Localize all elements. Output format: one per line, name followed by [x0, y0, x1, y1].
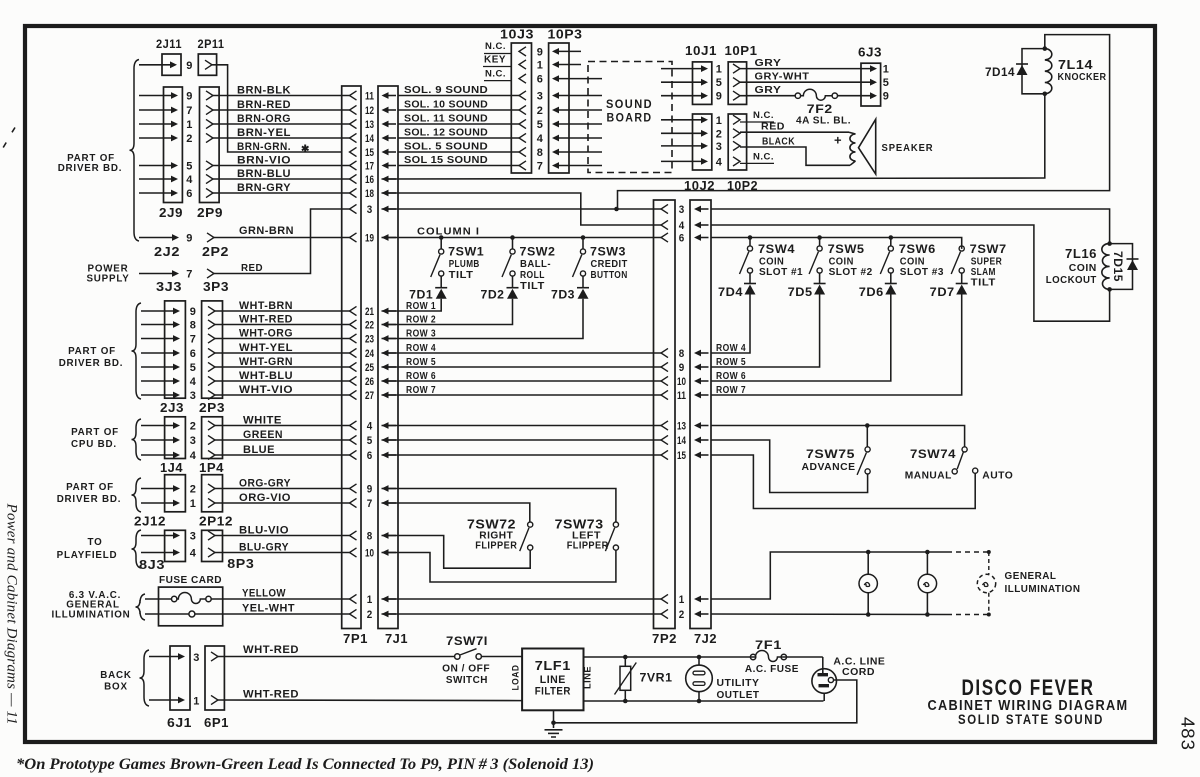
ac line cord plug drop	[822, 657, 824, 674]
svg-text:7F1: 7F1	[755, 640, 782, 652]
arrow 10P3 row 6	[552, 75, 559, 82]
wire knocker top loop	[618, 35, 1110, 209]
strip 7P1 pin 18 contact	[350, 188, 357, 197]
contact in 8P3 row 3	[208, 531, 215, 540]
wire 7D3 to row	[382, 299, 584, 339]
svg-text:1: 1	[190, 498, 197, 510]
strip 7P1 pin 1 contact	[350, 594, 357, 603]
strip 7P2 pin 15 contact	[661, 450, 668, 459]
strip 7P1 pin 17 contact	[350, 161, 357, 170]
contact in 2P12 row 2	[208, 484, 215, 493]
svg-text:1P4: 1P4	[199, 461, 224, 475]
svg-text:1: 1	[679, 594, 685, 606]
svg-text:3P3: 3P3	[203, 280, 229, 294]
contact 6P1 pin 3	[211, 652, 218, 661]
contact in 2P9 row 9	[206, 91, 213, 100]
contact in 2P9 row 6	[206, 188, 213, 197]
contact in 2P3 row 7	[208, 334, 215, 343]
junction dot ground	[551, 721, 556, 726]
contact in 2P9 row 5	[206, 161, 213, 170]
speaker cone	[859, 119, 876, 174]
arrow into 2J9 pin 6	[171, 190, 178, 197]
svg-text:2P12: 2P12	[199, 515, 233, 529]
arrow into 6J3 pin 5	[870, 79, 877, 86]
svg-text:A.C. FUSE: A.C. FUSE	[745, 663, 799, 675]
svg-text:BRN-GRN.: BRN-GRN.	[237, 141, 291, 153]
svg-text:10: 10	[365, 548, 374, 560]
svg-text:4: 4	[186, 174, 193, 186]
wire WHT-RED	[215, 324, 350, 326]
wire row16 to knocker coil bottom	[382, 94, 1045, 179]
svg-text:N.C.: N.C.	[753, 151, 774, 162]
svg-text:OUTLET: OUTLET	[717, 690, 760, 701]
lamp 2 stem top	[926, 552, 928, 574]
contact in 2P12 row 1	[208, 498, 215, 507]
wire GRY 2 right of fuse	[838, 95, 873, 97]
svg-text:RED: RED	[761, 122, 785, 133]
contact 10J3 row 4	[519, 133, 526, 142]
sound board feed to 10J1 lower pin 2	[701, 130, 708, 137]
fuse F yellow	[172, 596, 177, 601]
wire row13 to switches	[711, 425, 867, 427]
strip 7P1 pin 6 contact	[350, 450, 357, 459]
svg-text:PART OF: PART OF	[66, 482, 114, 493]
brace driver board group 2J9	[130, 60, 140, 242]
svg-text:1J4: 1J4	[160, 461, 183, 475]
wire RED to 7P1 pin 3	[214, 209, 350, 274]
switch 7SW72	[528, 522, 533, 527]
svg-text:7SW75: 7SW75	[806, 447, 855, 461]
svg-text:WHITE: WHITE	[243, 414, 282, 426]
svg-text:9: 9	[186, 60, 193, 72]
diode 7D14	[1016, 63, 1028, 65]
strip 7P1 pin 27 contact	[350, 390, 357, 399]
strip 7P1 pin 25 contact	[350, 362, 357, 371]
svg-text:WHT-RED: WHT-RED	[243, 644, 299, 656]
svg-text:5: 5	[716, 77, 723, 89]
svg-text:13: 13	[365, 119, 374, 131]
brace playfield group 8J3	[132, 530, 142, 568]
svg-text:3: 3	[193, 652, 200, 664]
svg-text:WHT-ORG: WHT-ORG	[239, 327, 293, 339]
strip 7J1 pin 3 arrow	[382, 206, 389, 213]
wire row7 to 7SW72	[382, 503, 530, 522]
connector 1J4 box	[165, 417, 186, 459]
junction dot 7SW3	[581, 235, 586, 240]
sound board feed to 10J1 pin 9	[701, 92, 708, 99]
svg-text:SWITCH: SWITCH	[446, 674, 488, 686]
svg-text:3J3: 3J3	[156, 280, 182, 294]
svg-text:FLIPPER: FLIPPER	[567, 540, 609, 552]
strip 7P1 pin 15 contact	[350, 147, 357, 156]
svg-text:FILTER: FILTER	[535, 686, 571, 698]
strip 7J2 pin 14 arrow	[694, 437, 701, 444]
svg-text:16: 16	[365, 174, 374, 186]
svg-text:MANUAL: MANUAL	[905, 470, 952, 482]
contact in 2P9 row 1	[206, 119, 213, 128]
arrow 10P3 row 2	[552, 107, 559, 114]
svg-text:9: 9	[883, 91, 890, 103]
wire WHT-GRN	[215, 366, 350, 368]
arrow into 1J4 pin 4	[173, 452, 180, 459]
wire GREEN	[215, 439, 350, 441]
wire row5-14 cross	[382, 439, 662, 441]
diode 7D4	[749, 273, 751, 283]
svg-text:ROW 1: ROW 1	[406, 300, 436, 312]
svg-text:SOL. 10 SOUND: SOL. 10 SOUND	[404, 99, 488, 111]
wire 7D5 to row	[711, 295, 820, 368]
svg-text:2J12: 2J12	[134, 515, 166, 529]
svg-text:ORG-GRY: ORG-GRY	[239, 477, 291, 489]
strip 7J2 pin 13 arrow	[694, 422, 701, 429]
wire GRN-BRN	[214, 237, 350, 239]
svg-text:7J2: 7J2	[694, 632, 717, 646]
connector 8J3 box	[165, 530, 186, 561]
arrow 10P3 row 7	[552, 162, 559, 169]
wire switch to line filter	[481, 656, 522, 658]
arrow into 2J9 pin 4	[171, 176, 178, 183]
contact in 2P3 row 6	[208, 348, 215, 357]
wire SOL. 9 SOUND	[398, 95, 519, 97]
strip 7P1 pin 11 contact	[350, 91, 357, 100]
wire row1 cross	[382, 598, 662, 600]
svg-text:7D5: 7D5	[788, 285, 813, 299]
strip 7J2 pin 10 arrow	[694, 378, 701, 385]
svg-text:ORG-VIO: ORG-VIO	[239, 492, 291, 504]
strip 7P1 pin 7 contact	[350, 498, 357, 507]
diode 7D6	[890, 273, 892, 283]
svg-text:SOL. 5 SOUND: SOL. 5 SOUND	[404, 141, 488, 153]
strip 7J1 pin 5 arrow	[382, 437, 389, 444]
svg-text:YEL-WHT: YEL-WHT	[242, 602, 295, 614]
junction dot lamp 2 bottom	[925, 612, 930, 617]
wire coin switch bus	[711, 238, 962, 249]
contact in 2P3 row 4	[208, 376, 215, 385]
wire SOL 15 SOUND	[398, 165, 519, 167]
junction dot lockout bottom	[1107, 287, 1112, 292]
svg-text:PART OF: PART OF	[71, 427, 119, 438]
svg-text:ROW 4: ROW 4	[716, 342, 746, 354]
svg-text:11: 11	[365, 91, 374, 103]
svg-text:7SW1: 7SW1	[448, 245, 484, 259]
wire ROW 4 cross	[382, 352, 662, 354]
wire row3 7J1 to 10J2 pin 3	[382, 208, 662, 210]
strip 7J1 pin 16 arrow	[382, 176, 389, 183]
switch 7SW74	[962, 447, 967, 452]
diode 7D15 loop	[1110, 244, 1133, 290]
svg-text:6: 6	[679, 233, 685, 245]
switch 7SW4	[749, 238, 751, 246]
wire 7D4 to row	[711, 295, 750, 354]
wire ROW 5 cross	[382, 366, 662, 368]
brace cpu board group 1J4	[132, 419, 142, 460]
svg-text:7: 7	[367, 498, 373, 510]
wire SOL. 10 SOUND	[398, 109, 519, 111]
svg-text:BOX: BOX	[104, 682, 128, 693]
wire row18 to 10J2 pin 4	[382, 193, 662, 225]
contact in 2P9 row 7	[206, 105, 213, 114]
lamp 3 stem top dashed	[988, 552, 990, 574]
svg-text:ROW 6: ROW 6	[716, 370, 746, 382]
connector 6P1 box	[205, 646, 224, 710]
wire plug return	[554, 680, 857, 723]
svg-text:GENERAL: GENERAL	[1005, 571, 1057, 582]
svg-text:17: 17	[365, 161, 374, 173]
strip 7J1 pin 17 arrow	[382, 162, 389, 169]
lamp 3 stem bottom dashed	[988, 593, 990, 615]
svg-text:2J11: 2J11	[156, 39, 182, 51]
svg-text:10J3: 10J3	[500, 28, 534, 42]
strip 7P1 pin 12 contact	[350, 105, 357, 114]
contact 10J3 row 7	[519, 161, 526, 170]
wire filter top out	[584, 656, 823, 658]
fuse 7F1	[756, 651, 781, 663]
svg-text:BRN-BLK: BRN-BLK	[237, 84, 291, 96]
svg-text:1: 1	[883, 64, 890, 76]
svg-text:6: 6	[367, 450, 373, 462]
speaker coil	[849, 132, 856, 134]
strip 7P2 pin 9 contact	[661, 362, 668, 371]
svg-text:DISCO FEVER: DISCO FEVER	[962, 675, 1095, 700]
arrow 10P3 row 9	[552, 48, 559, 55]
svg-text:SLOT #2: SLOT #2	[829, 266, 873, 278]
svg-text:8: 8	[537, 147, 544, 159]
svg-text:N.C.: N.C.	[485, 68, 506, 79]
contact 10P1 row 9	[733, 91, 740, 100]
junction dot 7SW75	[865, 423, 870, 428]
svg-text:27: 27	[365, 390, 374, 402]
junction dot 7SW2	[510, 235, 515, 240]
svg-text:2: 2	[190, 484, 197, 496]
arrow into 2J3 pin 8	[173, 321, 180, 328]
svg-text:WHT-RED: WHT-RED	[239, 313, 293, 325]
contact 10J3 row 2	[519, 105, 526, 114]
svg-text:GREEN: GREEN	[243, 429, 283, 441]
svg-text:7D7: 7D7	[930, 285, 955, 299]
svg-text:8: 8	[367, 531, 373, 543]
strip 7J1 pin 2 arrow	[382, 611, 389, 618]
svg-text:2: 2	[367, 609, 373, 621]
strip 7P1 pin 10 contact	[350, 548, 357, 557]
arrow into 1J4 pin 2	[173, 422, 180, 429]
lamp 1 stem top	[867, 552, 869, 574]
brace driver board group 2J3	[132, 303, 142, 399]
contact 10P1 lower row 2	[733, 129, 740, 138]
svg-text:5: 5	[186, 161, 193, 173]
svg-text:7VR1: 7VR1	[640, 671, 673, 685]
svg-text:BRN-RED: BRN-RED	[237, 99, 291, 111]
svg-text:4: 4	[190, 376, 197, 388]
strip 7P1 pin 4 contact	[350, 421, 357, 430]
diode 7D3	[582, 276, 584, 288]
switch 7SW6	[890, 238, 892, 246]
strip 7P1 pin 9 contact	[350, 484, 357, 493]
strip 7P1 pin 24 contact	[350, 348, 357, 357]
connector 2P12 box	[202, 475, 223, 512]
contact in 1P4 row 4	[208, 450, 215, 459]
svg-text:KNOCKER: KNOCKER	[1058, 72, 1107, 83]
strip 7P1 pin 5 contact	[350, 435, 357, 444]
svg-text:7P2: 7P2	[652, 632, 677, 646]
svg-text:BLACK: BLACK	[762, 136, 795, 147]
junction dot row3 node	[614, 207, 619, 212]
svg-text:1: 1	[716, 115, 723, 127]
switch 7SW73	[613, 522, 618, 527]
diode 7D1	[440, 276, 442, 288]
svg-text:9: 9	[679, 362, 685, 374]
svg-text:7P1: 7P1	[343, 632, 368, 646]
connector 2J11 box	[162, 54, 181, 75]
wire WHT-BRN	[215, 310, 350, 312]
lamp 3 dashed	[977, 574, 995, 592]
sound board feed to 10J1 lower pin 1	[701, 116, 708, 123]
end dot lamp bus bottom	[987, 613, 991, 617]
strip 7J1 pin 1 arrow	[382, 596, 389, 603]
wire BLACK to speaker	[740, 147, 850, 165]
wire filter bottom out	[584, 700, 824, 702]
connector 6J3 box	[861, 63, 881, 106]
svg-text:SPEAKER: SPEAKER	[882, 142, 934, 154]
svg-text:2: 2	[186, 133, 193, 145]
strip 7J1 pin 26 arrow	[382, 378, 389, 385]
svg-text:5: 5	[190, 362, 197, 374]
arrow into 2J9 pin 9	[171, 92, 178, 99]
strip 7J2 pin 15 arrow	[694, 452, 701, 459]
ac line cord plug	[812, 669, 837, 694]
wire row8 to 7SW72 bottom	[382, 536, 531, 569]
svg-text:10: 10	[677, 376, 686, 388]
strip 7J1 pin 19 arrow	[382, 234, 389, 241]
switch 7SW1	[440, 238, 442, 249]
svg-text:FUSE CARD: FUSE CARD	[159, 574, 222, 586]
svg-text:1: 1	[193, 696, 200, 708]
svg-text:2: 2	[679, 609, 685, 621]
contact in 2P9 row 4	[206, 174, 213, 183]
wire row4-13 cross	[382, 425, 662, 427]
contact 10P1 lower row 3	[733, 141, 740, 150]
junction dot 7SW5	[817, 235, 822, 240]
wire RED to speaker	[740, 131, 849, 133]
svg-text:ROW 3: ROW 3	[406, 327, 436, 339]
junction dot 7SW6	[889, 235, 894, 240]
junction dot knocker bottom	[1043, 92, 1048, 97]
svg-text:CORD: CORD	[842, 666, 875, 678]
strip 7P1 pin 16 contact	[350, 174, 357, 183]
wire COLUMN 1 bus	[382, 237, 662, 239]
svg-text:SOL. 11 SOUND: SOL. 11 SOUND	[404, 113, 488, 125]
svg-text:ROW 4: ROW 4	[406, 342, 436, 354]
wire row9 to 7SW73	[382, 489, 616, 523]
wire GRY-WHT	[740, 81, 872, 83]
strip 7J1 pin 11 arrow	[382, 92, 389, 99]
wire GRY 1	[740, 68, 872, 70]
wire lamp bus top dashed	[947, 551, 989, 553]
contact 10P1 lower row 4	[733, 157, 740, 166]
svg-text:10P3: 10P3	[548, 28, 583, 42]
wire BLU-GRY	[215, 552, 350, 554]
svg-text:SLOT #1: SLOT #1	[759, 266, 803, 278]
brace back box	[140, 650, 150, 706]
filter case ground stub	[553, 710, 555, 728]
svg-text:5: 5	[883, 77, 890, 89]
strip 7J1 pin 7 arrow	[382, 500, 389, 507]
svg-text:24: 24	[365, 348, 374, 360]
wire BRN-RED	[213, 109, 350, 111]
svg-text:DRIVER BD.: DRIVER BD.	[58, 163, 123, 174]
svg-text:9: 9	[190, 306, 197, 318]
svg-text:UTILITY: UTILITY	[717, 678, 760, 689]
wire yellow fuse to 7P1	[211, 598, 349, 600]
switch 7SW7	[959, 246, 964, 251]
svg-text:WHT-GRN: WHT-GRN	[239, 356, 293, 368]
strip 7P2 pin 11 contact	[661, 390, 668, 399]
strip 7J1 pin 4 arrow	[382, 422, 389, 429]
arrow into 2J9 pin 1	[171, 121, 178, 128]
connector 10P1 lower box	[728, 114, 746, 170]
svg-text:10J1: 10J1	[685, 44, 717, 58]
svg-text:4: 4	[367, 421, 373, 433]
wire 7J2 pin1 to lamp bus top	[711, 552, 947, 599]
arrow into 8J3 pin 4	[173, 549, 180, 556]
wire WHT-BLU	[215, 380, 350, 382]
diode 7D5	[819, 273, 821, 283]
svg-text:SOL 15 SOUND: SOL 15 SOUND	[404, 154, 488, 166]
strip 7J1 pin 15 arrow	[382, 149, 389, 156]
strip 7P1 pin 3 contact	[350, 204, 357, 213]
strip 7J2 pin 8 arrow	[694, 350, 701, 357]
strip 7J1 pin 6 arrow	[382, 452, 389, 459]
fuse card box	[159, 587, 223, 626]
svg-text:ILLUMINATION: ILLUMINATION	[1005, 584, 1081, 595]
strip 7J1 pin 8 arrow	[382, 532, 389, 539]
svg-text:N.C.: N.C.	[485, 41, 506, 52]
contact 10P1 lower row 1	[733, 115, 740, 124]
arrow 10P3 row 4	[552, 135, 559, 142]
svg-text:BACK: BACK	[100, 670, 132, 681]
fuse holder yel-wht	[189, 611, 195, 617]
svg-text:LINE: LINE	[540, 674, 566, 686]
strip 7J2 pin 9 arrow	[694, 364, 701, 371]
strip 7P2 pin 10 contact	[661, 376, 668, 385]
svg-text:BRN-GRY: BRN-GRY	[237, 182, 291, 194]
svg-text:9: 9	[186, 91, 193, 103]
svg-text:DRIVER BD.: DRIVER BD.	[59, 358, 124, 369]
svg-text:4: 4	[190, 548, 197, 560]
strip 7P1 pin 13 contact	[350, 119, 357, 128]
strip 7P1 pin 2 contact	[350, 609, 357, 618]
strip 7P1 pin 21 contact	[350, 306, 357, 315]
junction dot outlet top	[697, 655, 702, 660]
contact in 2P3 row 8	[208, 320, 215, 329]
arrow 10P3 row 3	[552, 92, 559, 99]
strip 7P2 pin 13 contact	[661, 421, 668, 430]
wire WHITE	[215, 425, 350, 427]
wire WHT-YEL	[215, 352, 350, 354]
connector 2P9 box	[200, 87, 220, 203]
diode 7D14 branch wire	[1022, 49, 1045, 94]
svg-text:7D14: 7D14	[985, 65, 1015, 79]
svg-text:6J1: 6J1	[167, 716, 192, 730]
knocker coil 7L14	[1045, 49, 1052, 94]
svg-text:1: 1	[537, 60, 544, 72]
varistor 7VR1	[624, 657, 626, 666]
svg-text:4: 4	[537, 133, 544, 145]
lockout coil 7L16	[1102, 244, 1110, 290]
strip 7J1 pin 27 arrow	[382, 392, 389, 399]
connector 10J1 upper box	[693, 62, 712, 105]
connector 8P3 box	[202, 530, 223, 561]
arrow 3J3	[172, 270, 179, 277]
